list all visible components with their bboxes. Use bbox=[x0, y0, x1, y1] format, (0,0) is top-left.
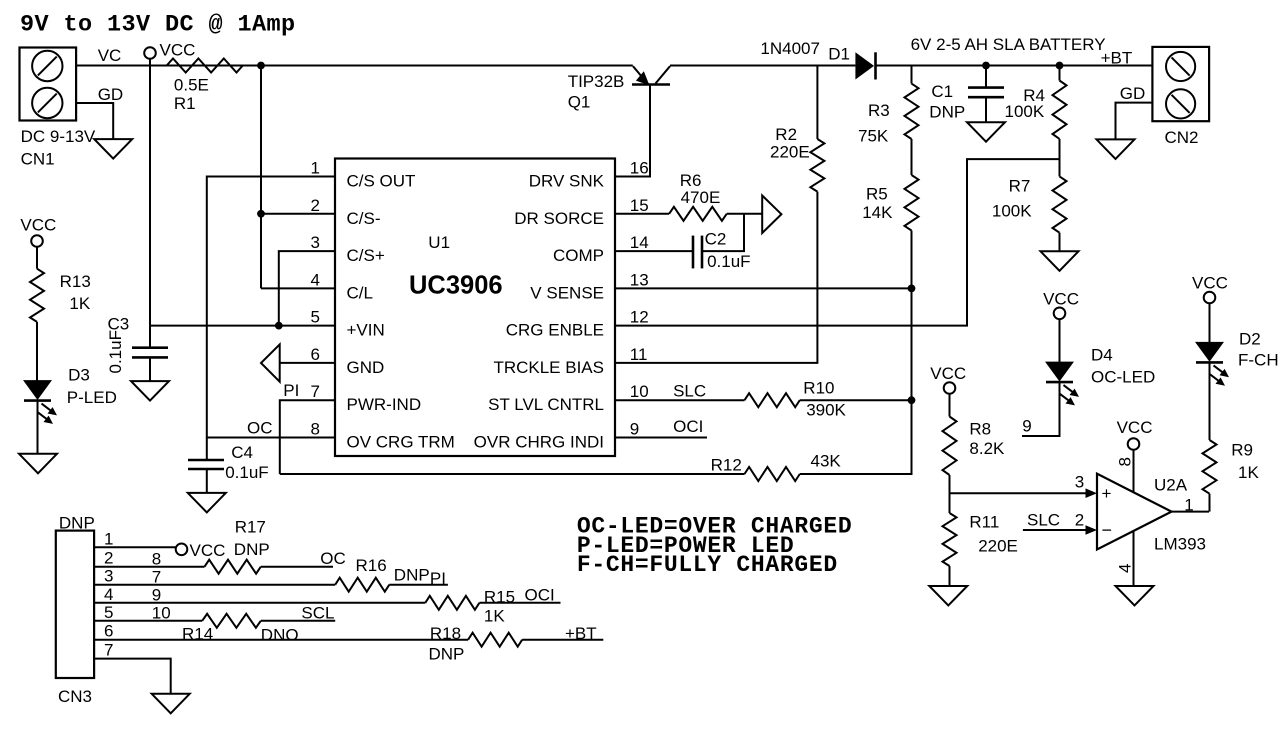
svg-text:OV CRG TRM: OV CRG TRM bbox=[347, 433, 455, 452]
svg-text:CRG ENBLE: CRG ENBLE bbox=[506, 321, 604, 340]
wire R6 to arrow bbox=[727, 213, 763, 215]
svg-text:13: 13 bbox=[630, 270, 649, 289]
svg-text:SLC: SLC bbox=[673, 382, 706, 401]
wire R16 to PI bbox=[389, 584, 448, 586]
svg-text:CN3: CN3 bbox=[58, 687, 92, 706]
ground (R11) bbox=[929, 586, 967, 606]
resistor R15 bbox=[425, 596, 479, 610]
svg-text:VCC: VCC bbox=[1043, 290, 1079, 309]
resistor R13 bbox=[30, 269, 44, 322]
wire pin 7 to R12 bbox=[280, 400, 335, 474]
svg-text:COMP: COMP bbox=[553, 246, 604, 265]
wire C4 top bbox=[206, 438, 208, 461]
connector CN3 bbox=[56, 531, 94, 678]
wire pin 6 (GND) bbox=[280, 362, 335, 364]
svg-text:1: 1 bbox=[1184, 496, 1193, 515]
svg-text:UC3906: UC3906 bbox=[409, 272, 503, 300]
svg-text:10: 10 bbox=[152, 603, 171, 622]
svg-text:9V to 13V DC @ 1Amp: 9V to 13V DC @ 1Amp bbox=[20, 12, 296, 39]
svg-text:R9: R9 bbox=[1231, 441, 1253, 460]
wire D3 to ground bbox=[37, 401, 39, 454]
svg-text:DRV SNK: DRV SNK bbox=[529, 172, 605, 191]
wire VCC to R8 bbox=[949, 394, 951, 417]
capacitor C4 bbox=[188, 459, 224, 462]
svg-text:2: 2 bbox=[1075, 511, 1084, 530]
svg-text:8: 8 bbox=[152, 549, 161, 568]
wire pin 16 to Q1 base bbox=[615, 85, 650, 177]
wire R14 to SCL bbox=[261, 620, 335, 622]
power VCC (D4) bbox=[1054, 308, 1066, 320]
junction pin3/pin5 bbox=[275, 322, 283, 330]
svg-text:DC 9-13V: DC 9-13V bbox=[21, 127, 96, 146]
svg-text:R12: R12 bbox=[711, 456, 742, 475]
resistor R11 bbox=[943, 513, 957, 566]
svg-text:2: 2 bbox=[104, 549, 113, 568]
wire CN3 pin3 left bbox=[94, 584, 335, 586]
wire U2A pin 8 bbox=[1133, 450, 1135, 492]
ground (U2A pin 4) bbox=[1116, 586, 1154, 606]
svg-text:OC: OC bbox=[247, 419, 273, 438]
wire pin 11 to R2 bbox=[615, 192, 817, 363]
svg-text:R13: R13 bbox=[60, 272, 91, 291]
junction on rail at R1 output bbox=[257, 62, 265, 70]
svg-text:ST LVL CNTRL: ST LVL CNTRL bbox=[488, 395, 604, 414]
capacitor C3 bbox=[132, 346, 168, 349]
svg-text:+: + bbox=[1102, 484, 1112, 503]
svg-text:VCC: VCC bbox=[20, 215, 56, 234]
svg-text:D1: D1 bbox=[828, 45, 850, 64]
capacitor C1 bbox=[968, 86, 1004, 89]
svg-text:7: 7 bbox=[152, 567, 161, 586]
wire R3-R5 bbox=[911, 139, 913, 175]
resistor R7 bbox=[1053, 176, 1067, 232]
svg-text:7: 7 bbox=[104, 641, 113, 660]
wire pin 9 stub bbox=[615, 437, 707, 439]
wire R2 top to rail bbox=[816, 66, 818, 140]
svg-text:5: 5 bbox=[104, 603, 113, 622]
resistor R3 bbox=[905, 84, 919, 139]
svg-text:OVR CHRG INDI: OVR CHRG INDI bbox=[474, 433, 604, 452]
wire comparator - input SLC bbox=[1023, 529, 1087, 531]
connector CN2 bbox=[1152, 47, 1209, 121]
wire R7 to ground bbox=[1059, 233, 1061, 252]
wire R11 to ground bbox=[949, 566, 951, 586]
resistor R9 bbox=[1203, 440, 1217, 494]
power VCC (R8) bbox=[944, 382, 956, 394]
svg-text:OC: OC bbox=[320, 549, 346, 568]
svg-text:1K: 1K bbox=[69, 294, 90, 313]
svg-text:100K: 100K bbox=[992, 202, 1032, 221]
wire R4-R7 bbox=[1059, 139, 1061, 177]
svg-text:R3: R3 bbox=[868, 101, 890, 120]
LED D4 bbox=[1046, 362, 1073, 381]
svg-text:14: 14 bbox=[630, 233, 649, 252]
wire D2 to R9 bbox=[1209, 363, 1211, 440]
svg-text:SLC: SLC bbox=[1027, 511, 1060, 530]
svg-text:+BT: +BT bbox=[1101, 49, 1133, 68]
wire GD from CN1 bbox=[76, 103, 113, 139]
svg-text:470E: 470E bbox=[681, 188, 721, 207]
diode D1 1N4007 bbox=[855, 52, 874, 79]
wire D4 to pin9 stub bbox=[1022, 383, 1060, 436]
resistor R5 bbox=[905, 175, 919, 231]
wire C2 riser bbox=[702, 214, 744, 251]
wire sense vertical bbox=[911, 288, 913, 400]
power VCC (input tap) bbox=[144, 47, 156, 59]
svg-text:−: − bbox=[1102, 520, 1113, 540]
resistor R12 bbox=[745, 467, 800, 481]
svg-text:5: 5 bbox=[311, 308, 320, 327]
svg-text:12: 12 bbox=[630, 308, 649, 327]
svg-text:OC-LED: OC-LED bbox=[1091, 368, 1155, 387]
resistor R8 bbox=[943, 417, 957, 476]
svg-text:0.5E: 0.5E bbox=[174, 76, 209, 95]
svg-text:C/S+: C/S+ bbox=[347, 246, 385, 265]
svg-text:7: 7 bbox=[311, 382, 320, 401]
wire R18 to +BT bbox=[522, 639, 603, 641]
wire comparator + input bbox=[950, 492, 1088, 494]
transistor Q1 TIP32B bbox=[632, 66, 670, 84]
svg-text:1K: 1K bbox=[1238, 463, 1259, 482]
svg-text:1: 1 bbox=[311, 159, 320, 178]
svg-text:OCI: OCI bbox=[673, 417, 703, 436]
svg-text:75K: 75K bbox=[858, 127, 889, 146]
svg-text:1: 1 bbox=[104, 529, 113, 548]
wire CN3 pin5 left bbox=[94, 620, 202, 622]
svg-text:VCC: VCC bbox=[190, 541, 226, 560]
wire R9 to output bbox=[1209, 494, 1211, 512]
LED D3 bbox=[24, 381, 51, 400]
wire pin 1 to OC line bbox=[207, 177, 335, 438]
wire VCC drop to pin 5 bbox=[149, 59, 151, 326]
LED D2 bbox=[1196, 342, 1223, 361]
wire pin 15 bbox=[615, 213, 669, 215]
svg-text:DNP: DNP bbox=[394, 566, 430, 585]
svg-text:TRCKLE BIAS: TRCKLE BIAS bbox=[493, 358, 604, 377]
wire CN3 pin4 left bbox=[94, 602, 425, 604]
wire C3 top bbox=[149, 326, 151, 348]
wire R15 to OCI bbox=[479, 602, 560, 604]
wire pin 12 CRG ENBLE bbox=[615, 159, 1060, 326]
svg-text:PI: PI bbox=[283, 381, 299, 400]
resistor R1 bbox=[167, 59, 243, 73]
svg-text:CN2: CN2 bbox=[1165, 128, 1199, 147]
wire battery rail bbox=[876, 65, 1152, 67]
ground (CN2) bbox=[1097, 139, 1135, 159]
svg-text:R17: R17 bbox=[235, 518, 266, 537]
wire U2A output bbox=[1172, 511, 1210, 513]
svg-text:R10: R10 bbox=[803, 379, 834, 398]
svg-text:2: 2 bbox=[311, 196, 320, 215]
svg-text:C/S OUT: C/S OUT bbox=[347, 172, 416, 191]
svg-text:3: 3 bbox=[311, 233, 320, 252]
svg-text:F-CH: F-CH bbox=[1238, 351, 1279, 370]
svg-text:VCC: VCC bbox=[1117, 418, 1153, 437]
svg-text:D4: D4 bbox=[1091, 346, 1113, 365]
power VCC (D3) bbox=[31, 235, 43, 247]
resistor R17 bbox=[205, 560, 261, 574]
wire rail to R3 bbox=[911, 66, 913, 84]
svg-text:PWR-IND: PWR-IND bbox=[347, 395, 422, 414]
svg-text:16: 16 bbox=[630, 159, 649, 178]
svg-text:4: 4 bbox=[311, 270, 320, 289]
connector CN1 bbox=[20, 48, 77, 121]
ground (D3) bbox=[19, 454, 57, 474]
wire R5 down to R12 riser bbox=[911, 231, 913, 289]
resistor R16 bbox=[335, 578, 389, 592]
power VCC (D2) bbox=[1204, 292, 1216, 304]
svg-text:D2: D2 bbox=[1239, 330, 1261, 349]
svg-text:VCC: VCC bbox=[1192, 274, 1228, 293]
svg-text:15: 15 bbox=[630, 196, 649, 215]
svg-text:VCC: VCC bbox=[930, 364, 966, 383]
wire R10 to sense line bbox=[800, 399, 912, 401]
svg-text:8.2K: 8.2K bbox=[969, 439, 1005, 458]
svg-text:R1: R1 bbox=[174, 94, 196, 113]
resistor R18 bbox=[468, 633, 522, 647]
ground (C1) bbox=[967, 122, 1005, 142]
wire R12 right riser bbox=[800, 400, 912, 474]
svg-text:1N4007: 1N4007 bbox=[760, 39, 820, 58]
svg-text:OCI: OCI bbox=[525, 586, 555, 605]
junction V SENSE bbox=[908, 285, 916, 293]
svg-text:1K: 1K bbox=[484, 607, 505, 626]
svg-text:9: 9 bbox=[630, 420, 639, 439]
wire pin 5 (+VIN) bbox=[150, 325, 335, 327]
wire C1 top bbox=[985, 66, 987, 88]
ground (R7) bbox=[1041, 251, 1079, 270]
power arrow (DR SORCE) bbox=[762, 196, 781, 234]
svg-text:6: 6 bbox=[104, 622, 113, 641]
svg-text:C1: C1 bbox=[931, 82, 953, 101]
svg-text:VC: VC bbox=[98, 46, 122, 65]
junction at pin 2 bbox=[257, 210, 265, 218]
power VCC (U2A pin 8) bbox=[1128, 438, 1140, 450]
svg-text:14K: 14K bbox=[862, 203, 893, 222]
svg-text:U2A: U2A bbox=[1154, 476, 1188, 495]
svg-text:DNP: DNP bbox=[429, 645, 465, 664]
svg-text:+BT: +BT bbox=[565, 624, 597, 643]
wire CN3 pin1 bbox=[94, 546, 175, 548]
wire VC rail (CN1 to Q1 emitter) bbox=[76, 65, 633, 67]
wire CN3 pin6 left bbox=[94, 639, 468, 641]
svg-text:9: 9 bbox=[1022, 417, 1031, 436]
svg-text:4: 4 bbox=[104, 585, 113, 604]
svg-text:10: 10 bbox=[630, 382, 649, 401]
svg-text:9: 9 bbox=[152, 585, 161, 604]
ground arrow (pin 6) bbox=[261, 344, 280, 381]
svg-text:LM393: LM393 bbox=[1154, 535, 1206, 554]
svg-text:V SENSE: V SENSE bbox=[530, 283, 604, 302]
wire Q1 collector rail to D1 bbox=[670, 65, 855, 67]
svg-text:DNP: DNP bbox=[929, 103, 965, 122]
svg-text:GD: GD bbox=[98, 85, 124, 104]
svg-text:C/S-: C/S- bbox=[347, 209, 381, 228]
svg-text:C2: C2 bbox=[705, 230, 727, 249]
wire pin 10 SLC bbox=[615, 399, 745, 401]
svg-text:6V 2-5 AH SLA BATTERY: 6V 2-5 AH SLA BATTERY bbox=[911, 35, 1106, 54]
svg-text:R16: R16 bbox=[356, 556, 387, 575]
svg-text:R7: R7 bbox=[1009, 177, 1031, 196]
junction C1 tap bbox=[982, 62, 990, 70]
wire to pin 4 bbox=[261, 287, 335, 289]
wire junction vertical to pin 4 bbox=[260, 66, 262, 289]
svg-text:8: 8 bbox=[311, 420, 320, 439]
svg-text:4: 4 bbox=[1116, 564, 1135, 573]
wire to pin 2 bbox=[261, 213, 335, 215]
wire U2A pin 4 bbox=[1133, 532, 1135, 587]
wire VCC to D4 bbox=[1059, 319, 1061, 362]
svg-text:100K: 100K bbox=[1005, 102, 1045, 121]
svg-text:11: 11 bbox=[630, 345, 648, 364]
wire pin 13 V SENSE bbox=[615, 287, 912, 289]
svg-text:Q1: Q1 bbox=[568, 93, 591, 112]
ground (C3) bbox=[131, 381, 169, 401]
svg-text:+VIN: +VIN bbox=[347, 321, 385, 340]
wire R17 to OC bbox=[261, 566, 333, 568]
op-amp U1 UC3906 body bbox=[335, 159, 615, 457]
power VCC (CN3 pin1) bbox=[176, 544, 188, 556]
svg-text:P-LED: P-LED bbox=[67, 388, 117, 407]
resistor R2 bbox=[810, 139, 824, 192]
svg-text:R2: R2 bbox=[775, 125, 797, 144]
svg-text:0.1uF: 0.1uF bbox=[225, 463, 268, 482]
svg-text:0.1uF: 0.1uF bbox=[106, 330, 125, 373]
wire R8-R11 bbox=[949, 475, 951, 513]
wire CN2 GD bbox=[1116, 103, 1153, 140]
junction R10/R12 bbox=[908, 396, 916, 404]
svg-text:GD: GD bbox=[1120, 84, 1146, 103]
svg-text:43K: 43K bbox=[811, 452, 842, 471]
resistor R14 bbox=[202, 614, 261, 628]
svg-text:3: 3 bbox=[104, 567, 113, 586]
wire CN3 pin7 bbox=[94, 659, 171, 694]
svg-text:DNO: DNO bbox=[261, 626, 299, 645]
svg-text:R11: R11 bbox=[969, 513, 999, 532]
resistor R6 bbox=[669, 207, 727, 221]
svg-text:220E: 220E bbox=[978, 537, 1018, 556]
ground (CN1 GD) bbox=[94, 139, 132, 159]
svg-text:0.1uF: 0.1uF bbox=[707, 252, 750, 271]
wire VCC to D2 bbox=[1209, 303, 1211, 342]
junction R4 tap bbox=[1056, 62, 1064, 70]
svg-text:U1: U1 bbox=[428, 233, 450, 252]
wire R4 top bbox=[1059, 66, 1061, 81]
wire pin 3 to +VIN node bbox=[279, 251, 335, 326]
svg-text:F-CH=FULLY CHARGED: F-CH=FULLY CHARGED bbox=[577, 552, 838, 578]
svg-text:R18: R18 bbox=[430, 624, 461, 643]
svg-text:C4: C4 bbox=[231, 443, 253, 462]
wire CN3 pin2 left bbox=[94, 566, 204, 568]
capacitor C2 bbox=[692, 236, 695, 269]
svg-text:PI: PI bbox=[430, 569, 446, 588]
op-amp U2A LM393 bbox=[1097, 474, 1172, 550]
svg-text:DR SORCE: DR SORCE bbox=[514, 209, 604, 228]
wire VCC to R13 bbox=[36, 247, 38, 269]
ground (C4) bbox=[188, 493, 226, 513]
svg-text:GND: GND bbox=[347, 358, 385, 377]
svg-text:6: 6 bbox=[311, 345, 320, 364]
resistor R10 bbox=[745, 393, 800, 407]
svg-text:C/L: C/L bbox=[347, 283, 373, 302]
svg-text:CN1: CN1 bbox=[21, 150, 55, 169]
svg-text:D3: D3 bbox=[68, 366, 90, 385]
svg-text:8: 8 bbox=[1116, 457, 1135, 466]
svg-text:TIP32B: TIP32B bbox=[568, 72, 625, 91]
svg-text:R8: R8 bbox=[969, 420, 991, 439]
svg-text:DNP: DNP bbox=[234, 540, 270, 559]
resistor R4 bbox=[1053, 81, 1067, 139]
ground (CN3) bbox=[152, 694, 190, 714]
svg-text:SCL: SCL bbox=[301, 603, 334, 622]
svg-text:220E: 220E bbox=[770, 143, 810, 162]
wire R12 left bbox=[280, 473, 745, 475]
svg-text:390K: 390K bbox=[806, 401, 846, 420]
wire R13 to D3 bbox=[36, 322, 38, 381]
svg-text:VCC: VCC bbox=[160, 41, 196, 60]
svg-text:3: 3 bbox=[1075, 473, 1084, 492]
svg-text:R5: R5 bbox=[866, 185, 888, 204]
wire pin 14 bbox=[615, 250, 693, 252]
